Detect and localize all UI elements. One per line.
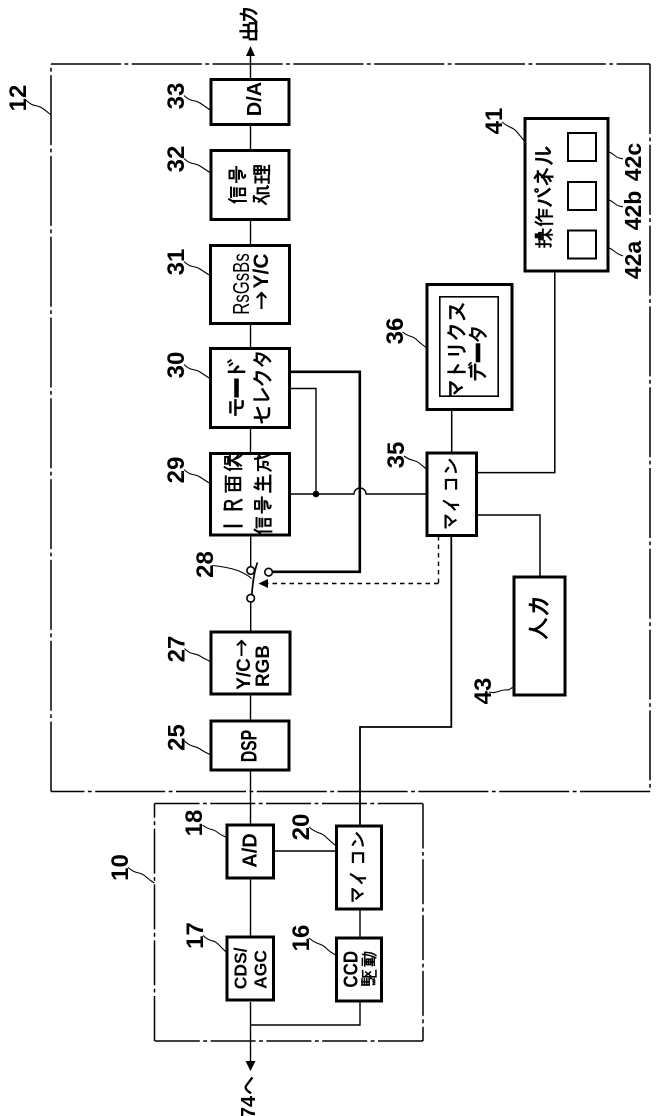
svg-text:42c: 42c [620, 143, 646, 182]
svg-text:74: 74 [238, 1095, 260, 1116]
svg-text:41: 41 [481, 108, 508, 135]
svg-text:42a: 42a [620, 241, 646, 280]
svg-text:16: 16 [288, 925, 315, 952]
svg-text:17: 17 [182, 922, 209, 949]
svg-text:AGC: AGC [251, 950, 271, 989]
svg-text:43: 43 [470, 678, 497, 705]
svg-text:18: 18 [181, 810, 208, 837]
svg-text:CCD: CCD [339, 951, 362, 988]
svg-text:DSP: DSP [237, 730, 262, 762]
svg-text:30: 30 [163, 352, 190, 379]
svg-text:A/D: A/D [240, 833, 262, 867]
svg-text:36: 36 [382, 318, 409, 345]
svg-text:28: 28 [192, 551, 219, 578]
svg-text:10: 10 [107, 854, 134, 881]
svg-text:Y/C: Y/C [250, 253, 273, 288]
svg-text:29: 29 [163, 457, 190, 484]
svg-text:32: 32 [163, 146, 190, 173]
svg-text:CDS/: CDS/ [231, 947, 251, 989]
svg-text:20: 20 [288, 814, 315, 841]
svg-text:42b: 42b [620, 191, 646, 231]
svg-text:31: 31 [163, 249, 190, 276]
svg-text:25: 25 [164, 724, 191, 751]
svg-text:35: 35 [383, 442, 410, 469]
svg-text:D/A: D/A [244, 82, 266, 116]
svg-text:33: 33 [163, 83, 190, 110]
svg-text:RGB: RGB [253, 645, 274, 687]
svg-text:12: 12 [5, 85, 32, 112]
svg-text:27: 27 [164, 636, 191, 663]
